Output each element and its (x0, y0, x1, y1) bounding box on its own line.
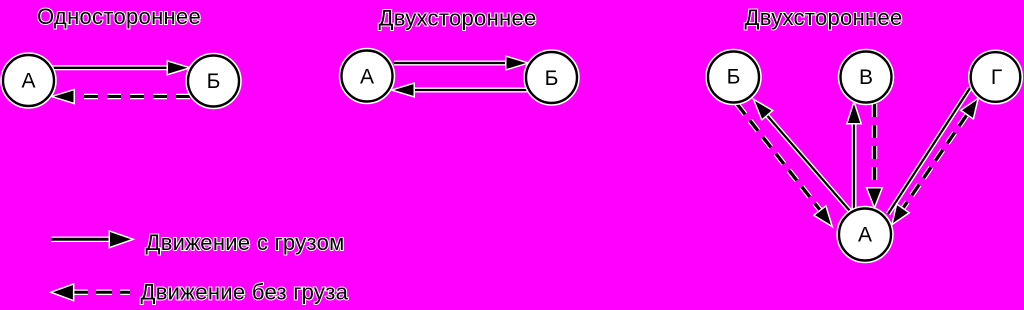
svg-text:Г: Г (991, 66, 1002, 89)
node B (diagram 3) (708, 52, 759, 103)
node A (diagram 3) (839, 209, 891, 261)
legend dashed arrow (53, 285, 130, 300)
svg-text:Двухстороннее: Двухстороннее (379, 6, 537, 31)
svg-text:В: В (859, 66, 873, 89)
legend solid arrow (51, 232, 131, 247)
wire: solid line A to G (diagram 3) (888, 88, 970, 214)
node B (diagram 2) (526, 52, 577, 103)
wire: solid arrow A to B (diagram 1) (52, 62, 188, 74)
svg-text:Двухстороннее: Двухстороннее (745, 5, 903, 30)
svg-text:А: А (360, 66, 374, 89)
svg-text:Б: Б (207, 70, 221, 93)
wire: dashed arrow B to A (diagram 3) (737, 104, 831, 225)
node A (diagram 1) (3, 55, 54, 106)
svg-text:Б: Б (545, 67, 559, 90)
svg-text:Б: Б (727, 66, 741, 89)
wire: dashed arrow V to A (diagram 3) (868, 104, 882, 206)
node A (diagram 2) (342, 51, 393, 102)
wire: dashed arrow G to A both heads (diagram 3) (893, 100, 977, 223)
wire: solid arrow B to A bottom (diagram 2) (394, 84, 527, 96)
node B (diagram 1) (188, 56, 239, 107)
node V (diagram 3) (841, 52, 892, 103)
wire: solid arrow A to V (diagram 3) (848, 104, 860, 210)
svg-text:Движение с грузом: Движение с грузом (146, 230, 345, 255)
node G (diagram 3) (971, 52, 1021, 102)
wire: solid arrow A to B top (diagram 2) (394, 57, 526, 69)
svg-text:А: А (858, 224, 872, 247)
wire: solid arrow A to B (diagram 3) (755, 101, 850, 211)
svg-text:А: А (21, 70, 35, 93)
svg-text:Движение без груза: Движение без груза (141, 280, 349, 305)
wire: dashed arrow B to A (diagram 1) (54, 91, 190, 103)
svg-text:Одностороннее: Одностороннее (37, 4, 201, 29)
